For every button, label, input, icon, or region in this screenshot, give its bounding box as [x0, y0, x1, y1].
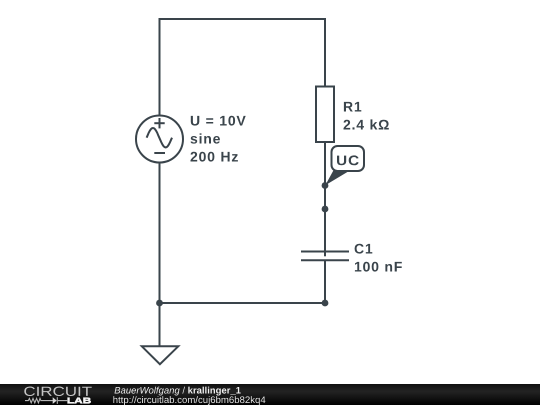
label C1	[355, 244, 373, 254]
label V1 200 Hz	[191, 152, 238, 162]
capacitor C1	[301, 252, 349, 261]
footer bar	[0, 384, 540, 405]
wire top loop	[160, 19, 326, 116]
wire resistor to capacitor	[324, 142, 326, 256]
UC flag pointer tail	[325, 171, 348, 186]
logo CIRCUIT	[24, 387, 91, 397]
label V1 sine	[191, 133, 220, 143]
footer url line	[113, 396, 265, 405]
V1 minus terminal mark	[154, 152, 165, 154]
ground	[142, 346, 179, 364]
UC flag balloon box	[332, 146, 365, 171]
C1 bottom plate	[301, 259, 349, 261]
node bottom left	[156, 300, 163, 307]
wire ground lead	[159, 303, 161, 346]
footer credit line	[115, 387, 241, 396]
V1 sine waveform glyph	[147, 128, 172, 147]
C1 top plate	[301, 251, 349, 253]
V1 plus terminal mark	[154, 122, 164, 124]
label C1 value 100 nF	[355, 262, 402, 272]
label R1	[344, 102, 361, 112]
voltage source V1	[136, 116, 183, 163]
voltage probe flag UC	[325, 146, 364, 185]
node junction dots	[156, 182, 328, 306]
logo LAB	[68, 398, 91, 404]
label V1 value U = 10V	[191, 116, 246, 126]
node bottom right	[322, 300, 329, 307]
label R1 value 2.4 kOhm	[344, 119, 389, 129]
node capacitor top	[322, 206, 329, 213]
node UC probe	[322, 182, 329, 189]
wire bottom horizontal	[160, 302, 326, 304]
label UC probe text	[337, 155, 359, 165]
wire left lower segment	[159, 163, 161, 304]
wire capacitor to bottom	[324, 260, 326, 303]
logo resistor zigzag and diode	[25, 397, 68, 404]
resistor R1	[316, 87, 334, 143]
